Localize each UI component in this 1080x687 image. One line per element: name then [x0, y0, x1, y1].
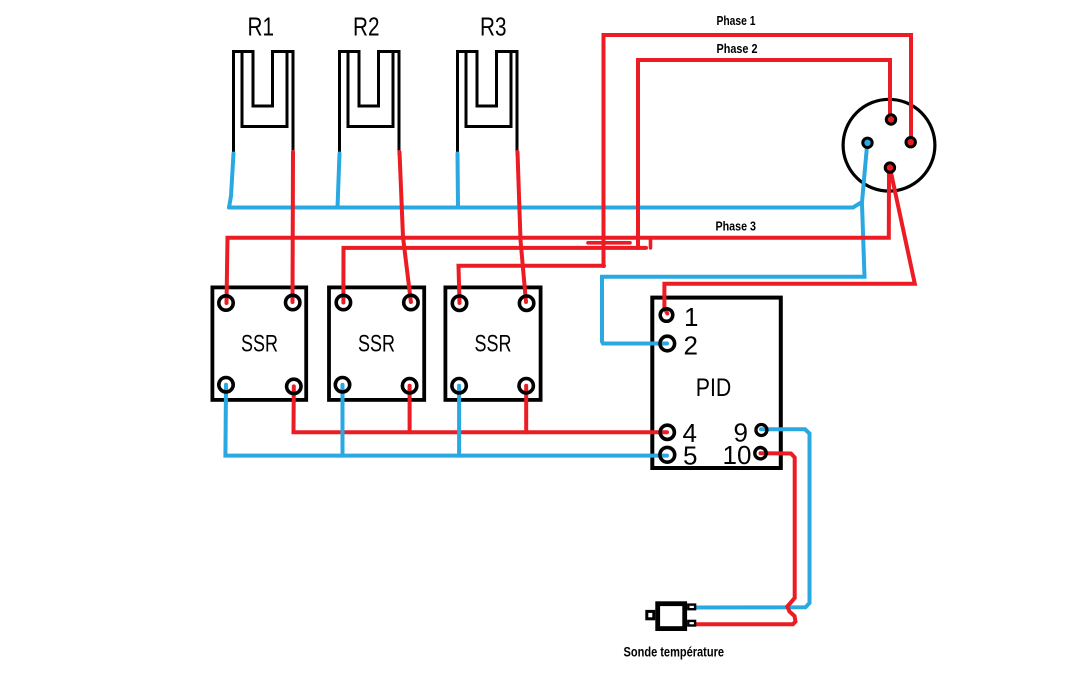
wire red Phase 1 [604, 35, 912, 266]
PID box [652, 298, 781, 468]
SSR3 box [445, 287, 540, 400]
PID pin 9 [756, 425, 767, 436]
wire blue connector to PID pin 2 [602, 204, 865, 344]
wire red PID pin 10 to probe [693, 453, 796, 624]
SSR1 pin top-left [219, 296, 233, 310]
resistor R1 [232, 50, 295, 155]
probe left stub [647, 611, 654, 618]
wire red junction stub between line1 and line2 [649, 238, 653, 248]
wire blue SSR3 input junction [457, 386, 461, 456]
svg-text:1: 1 [684, 302, 698, 332]
wire red R3 right terminal to SSR3 pin [518, 152, 527, 302]
svg-text:R3: R3 [480, 12, 507, 42]
svg-text:R1: R1 [248, 12, 275, 42]
wire red connector bottom pin to PID pin 1 [664, 168, 914, 314]
wire red R1 right terminal to SSR1 pin [291, 152, 296, 302]
wire blue neutral bus to connector left pin [229, 146, 867, 208]
wire red Phase 2 [638, 60, 890, 248]
wire red overshoot dash near junction [588, 241, 630, 245]
wire red phase 1 branch to SSR3 [459, 266, 605, 303]
SSR1 pin top-right [286, 295, 300, 309]
SSR2 box [329, 287, 424, 400]
SSR3 pin bottom-left [452, 379, 466, 393]
svg-text:Phase 2: Phase 2 [717, 41, 758, 56]
connector pin top (red) [886, 115, 895, 124]
SSR2 pin bottom-right [402, 379, 416, 393]
svg-text:10: 10 [723, 440, 752, 470]
PID pin 2 [660, 336, 675, 351]
svg-text:SSR: SSR [475, 331, 512, 358]
SSR3 pin bottom-right [519, 379, 533, 393]
PID pin 4 [660, 425, 674, 439]
resistor R3 [456, 50, 519, 155]
SSR1 pin bottom-left [219, 378, 233, 392]
resistor R2 [338, 50, 401, 155]
probe right tab bottom [688, 621, 695, 626]
wire red SSR2 output junction [408, 386, 412, 433]
PID pin 5 [660, 447, 675, 462]
connector pin left (blue) [863, 138, 872, 147]
PID pin 10 [755, 448, 766, 459]
svg-text:Sonde température: Sonde température [624, 645, 725, 660]
SSR1 box [212, 287, 306, 400]
wire red SSR1 output to PID pin 4 bus [294, 386, 668, 432]
wire red R2 right terminal to SSR2 pin [400, 152, 411, 302]
SSR1 pin bottom-right [287, 379, 301, 393]
SSR3 pin top-left [452, 296, 466, 310]
wire red Phase 3 from connector bottom pin to SSR1 [227, 168, 890, 304]
svg-text:5: 5 [683, 441, 697, 471]
svg-text:PID: PID [696, 374, 732, 402]
svg-text:R2: R2 [353, 12, 380, 42]
SSR2 pin top-left [336, 295, 350, 309]
PID pin 1 [660, 309, 673, 322]
wire blue R2 terminal to neutral bus [338, 154, 340, 208]
svg-text:SSR: SSR [241, 331, 278, 358]
temperature probe body [658, 604, 685, 629]
wire blue PID pin 9 to probe [693, 429, 810, 607]
connector pin right (red) [906, 138, 915, 147]
svg-text:2: 2 [684, 331, 698, 361]
SSR3 pin top-right [519, 296, 533, 310]
wire blue R3 terminal to neutral bus [456, 154, 461, 208]
SSR2 pin top-right [404, 295, 418, 309]
wire red SSR3 output junction [524, 386, 528, 433]
wire red phase 2 branch to SSR2 [343, 248, 646, 303]
svg-text:SSR: SSR [358, 331, 395, 358]
wire blue SSR1 input to PID pin 5 bus [225, 385, 667, 456]
wire blue R1 terminal to neutral bus [229, 154, 234, 208]
svg-text:Phase 1: Phase 1 [717, 13, 756, 28]
connector J1 body [843, 99, 935, 191]
probe right tab top [688, 605, 695, 610]
svg-text:Phase 3: Phase 3 [716, 219, 757, 234]
SSR2 pin bottom-left [335, 378, 349, 392]
connector pin bottom (red) [885, 163, 894, 172]
wire blue SSR2 input junction [341, 385, 345, 456]
